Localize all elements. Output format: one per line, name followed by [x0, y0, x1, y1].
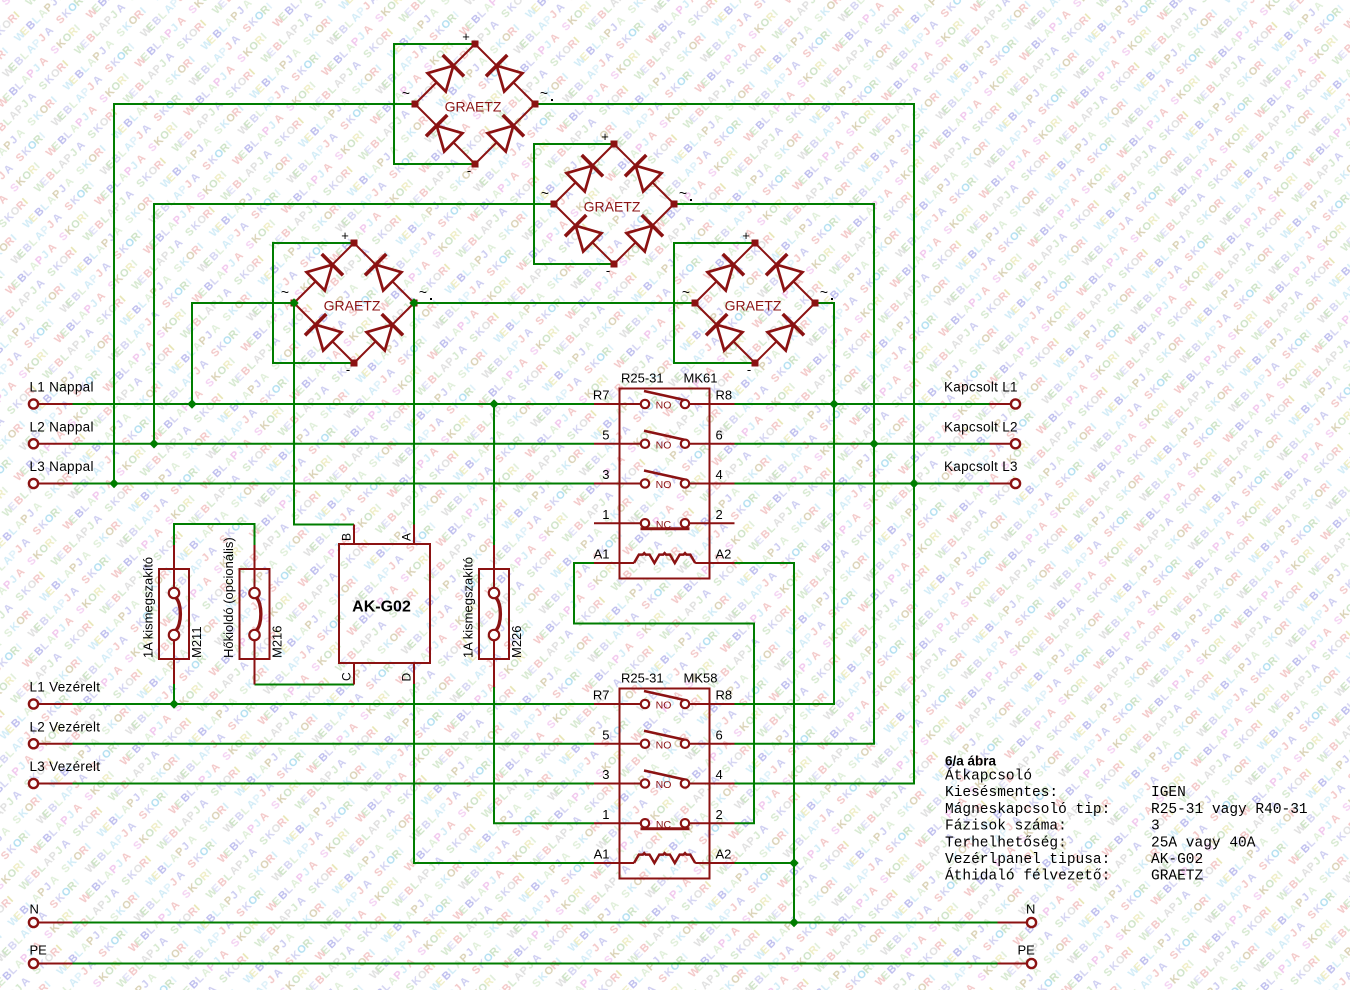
- svg-text:~: ~: [682, 284, 690, 300]
- wire GRAETZ2 AC right to Kapcsolt L2 and MK58 pin 6: [674, 204, 874, 744]
- terminal PE right: [998, 943, 1037, 969]
- svg-text:Terhelhetőség:: Terhelhetőség:: [945, 835, 1067, 851]
- svg-text:C: C: [340, 672, 354, 681]
- svg-text:NO: NO: [656, 779, 672, 791]
- svg-text:Kapcsolt L3: Kapcsolt L3: [944, 459, 1018, 474]
- svg-text:5: 5: [602, 727, 609, 742]
- svg-text:+: +: [341, 228, 349, 243]
- junction: [829, 399, 838, 408]
- svg-text:N: N: [1026, 902, 1035, 917]
- svg-text:+: +: [462, 29, 470, 44]
- diode: [428, 55, 465, 92]
- svg-text:M216: M216: [270, 625, 285, 658]
- svg-text:L3 Vezérelt: L3 Vezérelt: [30, 759, 101, 774]
- wire GRAETZ3 AC left to AK-G02 pin B: [294, 303, 354, 525]
- svg-text:L1 Vezérelt: L1 Vezérelt: [30, 680, 101, 695]
- diode: [367, 314, 404, 351]
- pin B of AK-G02: [353, 525, 355, 545]
- terminal Kapcsolt L3: [944, 459, 1020, 488]
- svg-text:PE: PE: [30, 943, 48, 958]
- wire GRAETZ1 AC right to Kapcsolt L3 and MK58 pin 4: [535, 104, 914, 784]
- svg-text:3: 3: [602, 767, 609, 782]
- diode: [486, 55, 523, 92]
- contact NC 1-2 of MK61: [594, 519, 735, 531]
- svg-text:Kapcsolt L1: Kapcsolt L1: [944, 380, 1018, 395]
- bridge rectifier GRAETZ (upper middle): [541, 129, 692, 278]
- svg-text:A1: A1: [594, 847, 610, 862]
- wire GRAETZ3 AC right to AK-G02 pin A: [413, 303, 415, 525]
- wire bus L1 Vezerelt: [73, 703, 595, 705]
- svg-text:6: 6: [716, 727, 723, 742]
- svg-text:+: +: [742, 228, 750, 243]
- svg-text:1: 1: [602, 807, 609, 822]
- svg-text:A1: A1: [594, 547, 610, 562]
- diode: [768, 314, 805, 351]
- svg-text:PE: PE: [1018, 943, 1036, 958]
- svg-text:R25-31: R25-31: [621, 671, 664, 686]
- junction: [149, 439, 158, 448]
- svg-text:Vezérlpanel tipusa:: Vezérlpanel tipusa:: [945, 852, 1110, 868]
- bridge rectifier GRAETZ (left): [281, 228, 432, 377]
- svg-text:Átkapcsoló: Átkapcsoló: [945, 767, 1032, 785]
- svg-text:3: 3: [602, 467, 609, 482]
- relay MK58 R25-31: [593, 671, 735, 879]
- wire MK58 coil A2 to N riser: [735, 862, 795, 864]
- svg-text:2: 2: [716, 807, 723, 822]
- circuit breaker M226 (1A kismegszakító): [461, 545, 525, 687]
- svg-text:1A kismegszakító: 1A kismegszakító: [461, 557, 476, 658]
- junction: [789, 858, 798, 867]
- junction: [289, 298, 298, 307]
- svg-text:~: ~: [402, 85, 410, 101]
- diode: [426, 115, 463, 152]
- svg-text:25A vagy 40A: 25A vagy 40A: [1151, 835, 1256, 851]
- wire GRAETZ3 AC right to GRAETZ4 AC left: [414, 302, 695, 304]
- terminal L1 Nappal: [29, 380, 94, 409]
- wire bus L3 Nappal: [73, 483, 595, 485]
- svg-text:NC: NC: [656, 519, 672, 531]
- terminal N right: [998, 902, 1037, 928]
- wire GRAETZ4 AC right to Kapcsolt L1 and MK58 pin R8: [735, 303, 835, 704]
- svg-text:R25-31: R25-31: [621, 371, 664, 386]
- svg-text:-: -: [606, 263, 610, 278]
- svg-text:~: ~: [540, 85, 548, 101]
- wire tie M211 top to M216 top: [174, 524, 255, 545]
- junction: [869, 439, 878, 448]
- wire bus Kapcsolt L3: [735, 483, 990, 485]
- svg-text:MK58: MK58: [684, 671, 718, 686]
- wire bus Kapcsolt L2: [735, 443, 990, 445]
- svg-text:-: -: [467, 163, 471, 178]
- svg-text:MK61: MK61: [684, 371, 718, 386]
- svg-text:NO: NO: [656, 739, 672, 751]
- terminal L3 Vezérelt: [29, 759, 100, 788]
- terminal L2 Nappal: [29, 419, 94, 448]
- svg-text:M226: M226: [509, 625, 524, 658]
- svg-text:Kiesésmentes:: Kiesésmentes:: [945, 785, 1058, 801]
- svg-text:4: 4: [716, 467, 723, 482]
- svg-text:~: ~: [541, 185, 549, 201]
- terminal L1 Vezérelt: [29, 680, 100, 709]
- wire GRAETZ1 bypass + to -: [394, 44, 475, 164]
- terminal PE left: [29, 943, 73, 969]
- wire bus N: [73, 922, 998, 924]
- svg-text:IGEN: IGEN: [1151, 785, 1186, 801]
- contact NC 1-2 of MK58: [594, 819, 735, 831]
- svg-text:R7: R7: [593, 688, 610, 703]
- circuit breaker M211 (1A kismegszakító): [141, 545, 205, 684]
- svg-text:NO: NO: [656, 400, 672, 412]
- wire M211 bottom to L1 Vezerelt: [173, 684, 175, 704]
- wire bus L2 Vezerelt: [73, 743, 595, 745]
- terminal Kapcsolt L2: [944, 419, 1020, 448]
- coil A1-A2 of MK58: [594, 853, 735, 863]
- terminal L3 Nappal: [29, 459, 94, 488]
- wire L1 Nappal to M226 top: [493, 404, 495, 545]
- wire GRAETZ1 AC left to L3 Nappal: [114, 104, 415, 484]
- wire GRAETZ2 bypass + to -: [534, 144, 614, 264]
- terminal N left: [29, 902, 73, 928]
- svg-text:-: -: [747, 362, 751, 377]
- svg-text:R8: R8: [716, 688, 733, 703]
- svg-text:1A kismegszakító: 1A kismegszakító: [141, 557, 156, 658]
- svg-text:6/a ábra: 6/a ábra: [945, 754, 997, 769]
- diode: [625, 155, 662, 192]
- diode: [365, 254, 402, 291]
- svg-text:2: 2: [716, 507, 723, 522]
- junction: [187, 399, 196, 408]
- diode: [565, 215, 602, 252]
- diode: [567, 155, 604, 192]
- svg-text:GRAETZ: GRAETZ: [584, 199, 641, 215]
- wire GRAETZ4 bypass + to -: [674, 243, 755, 363]
- svg-text:M211: M211: [189, 626, 204, 658]
- diode: [307, 254, 344, 291]
- svg-text:A: A: [400, 533, 414, 541]
- svg-text:R7: R7: [593, 388, 610, 403]
- svg-text:~: ~: [679, 185, 687, 201]
- svg-text:AK-G02: AK-G02: [352, 599, 411, 616]
- svg-text:NO: NO: [656, 479, 672, 491]
- svg-text:R8: R8: [716, 388, 733, 403]
- wire bus Kapcsolt L1: [735, 403, 990, 405]
- relay MK61 R25-31: [593, 371, 735, 579]
- svg-text:~: ~: [419, 284, 427, 300]
- svg-text:A2: A2: [716, 547, 732, 562]
- pin A of AK-G02: [413, 525, 415, 545]
- control panel U1 AK-G02: [339, 544, 430, 663]
- pin C of AK-G02: [353, 663, 355, 685]
- svg-text:D: D: [400, 673, 414, 682]
- svg-text:5: 5: [602, 427, 609, 442]
- svg-text:6: 6: [716, 427, 723, 442]
- svg-text:-: -: [346, 362, 350, 377]
- pin D of AK-G02: [413, 663, 415, 684]
- junction: [789, 918, 798, 927]
- diode: [305, 314, 342, 351]
- svg-text:Hőkioldó (opcionális): Hőkioldó (opcionális): [221, 537, 236, 658]
- svg-text:~: ~: [820, 284, 828, 300]
- svg-text:GRAETZ: GRAETZ: [1151, 869, 1204, 885]
- wire bus L3 Vezerelt: [73, 783, 595, 785]
- contact NO 5-6 of MK61: [594, 431, 735, 452]
- svg-text:L1 Nappal: L1 Nappal: [30, 380, 94, 395]
- junction: [409, 298, 418, 307]
- svg-text:A2: A2: [716, 847, 732, 862]
- circuit breaker M216 (Hőkioldó (opcionális)): [221, 537, 285, 684]
- svg-text:N: N: [30, 902, 39, 917]
- contact NO 5-6 of MK58: [594, 731, 735, 752]
- svg-text:L3 Nappal: L3 Nappal: [30, 459, 94, 474]
- wire bus PE: [73, 963, 998, 965]
- terminal Kapcsolt L1: [944, 380, 1020, 409]
- svg-text:+: +: [601, 129, 609, 144]
- svg-text:Fázisok száma:: Fázisok száma:: [945, 819, 1067, 835]
- svg-text:R25-31 vagy R40-31: R25-31 vagy R40-31: [1151, 802, 1308, 818]
- junction: [109, 479, 118, 488]
- svg-text:NC: NC: [656, 819, 672, 831]
- wire AK-G02 pin D to MK58 coil A1: [414, 684, 594, 863]
- diode: [488, 115, 525, 152]
- svg-text:NO: NO: [656, 700, 672, 712]
- wire M216 bottom to AK-G02 pin C: [255, 684, 355, 686]
- wire MK61 coil A2 to bus N: [735, 563, 795, 923]
- contact NO 3-4 of MK58: [594, 771, 735, 792]
- svg-text:4: 4: [716, 767, 723, 782]
- spec table: [945, 767, 1308, 885]
- contact NO 3-4 of MK61: [594, 471, 735, 492]
- svg-text:~: ~: [281, 284, 289, 300]
- diode: [706, 314, 743, 351]
- diode: [627, 215, 664, 252]
- bridge rectifier GRAETZ (top): [402, 29, 553, 178]
- wire GRAETZ3 AC left to L1 Nappal: [192, 303, 294, 404]
- wire GRAETZ2 AC left to L2 Nappal: [154, 204, 554, 444]
- junction: [489, 399, 498, 408]
- bridge rectifier GRAETZ (right): [682, 228, 833, 377]
- junction: [169, 699, 178, 708]
- diode: [708, 254, 745, 291]
- wire MK61 coil A1 to MK58 pin 2: [574, 563, 754, 823]
- svg-text:3: 3: [1151, 819, 1160, 835]
- wire GRAETZ3 bypass + to -: [273, 243, 354, 363]
- contact NO R7-R8 of MK58: [594, 691, 735, 712]
- svg-text:Mágneskapcsoló tip:: Mágneskapcsoló tip:: [945, 802, 1110, 818]
- svg-text:GRAETZ: GRAETZ: [725, 298, 782, 314]
- coil A1-A2 of MK61: [594, 553, 735, 563]
- svg-text:AK-G02: AK-G02: [1151, 852, 1203, 868]
- svg-text:NO: NO: [656, 439, 672, 451]
- wire M226 bottom to MK58 pin 1: [494, 687, 594, 823]
- terminal L2 Vezérelt: [29, 719, 100, 748]
- contact NO R7-R8 of MK61: [594, 391, 735, 412]
- svg-text:Kapcsolt L2: Kapcsolt L2: [944, 419, 1018, 434]
- svg-text:Áthidaló félvezető:: Áthidaló félvezető:: [945, 867, 1110, 885]
- svg-text:GRAETZ: GRAETZ: [445, 99, 502, 115]
- junction: [909, 479, 918, 488]
- svg-text:L2 Nappal: L2 Nappal: [30, 419, 94, 434]
- svg-text:1: 1: [602, 507, 609, 522]
- svg-text:B: B: [340, 533, 354, 541]
- wire bus L2 Nappal: [73, 443, 595, 445]
- svg-text:GRAETZ: GRAETZ: [324, 298, 381, 314]
- wire bus L1 Nappal: [73, 403, 595, 405]
- diode: [766, 254, 803, 291]
- svg-text:L2 Vezérelt: L2 Vezérelt: [30, 719, 101, 734]
